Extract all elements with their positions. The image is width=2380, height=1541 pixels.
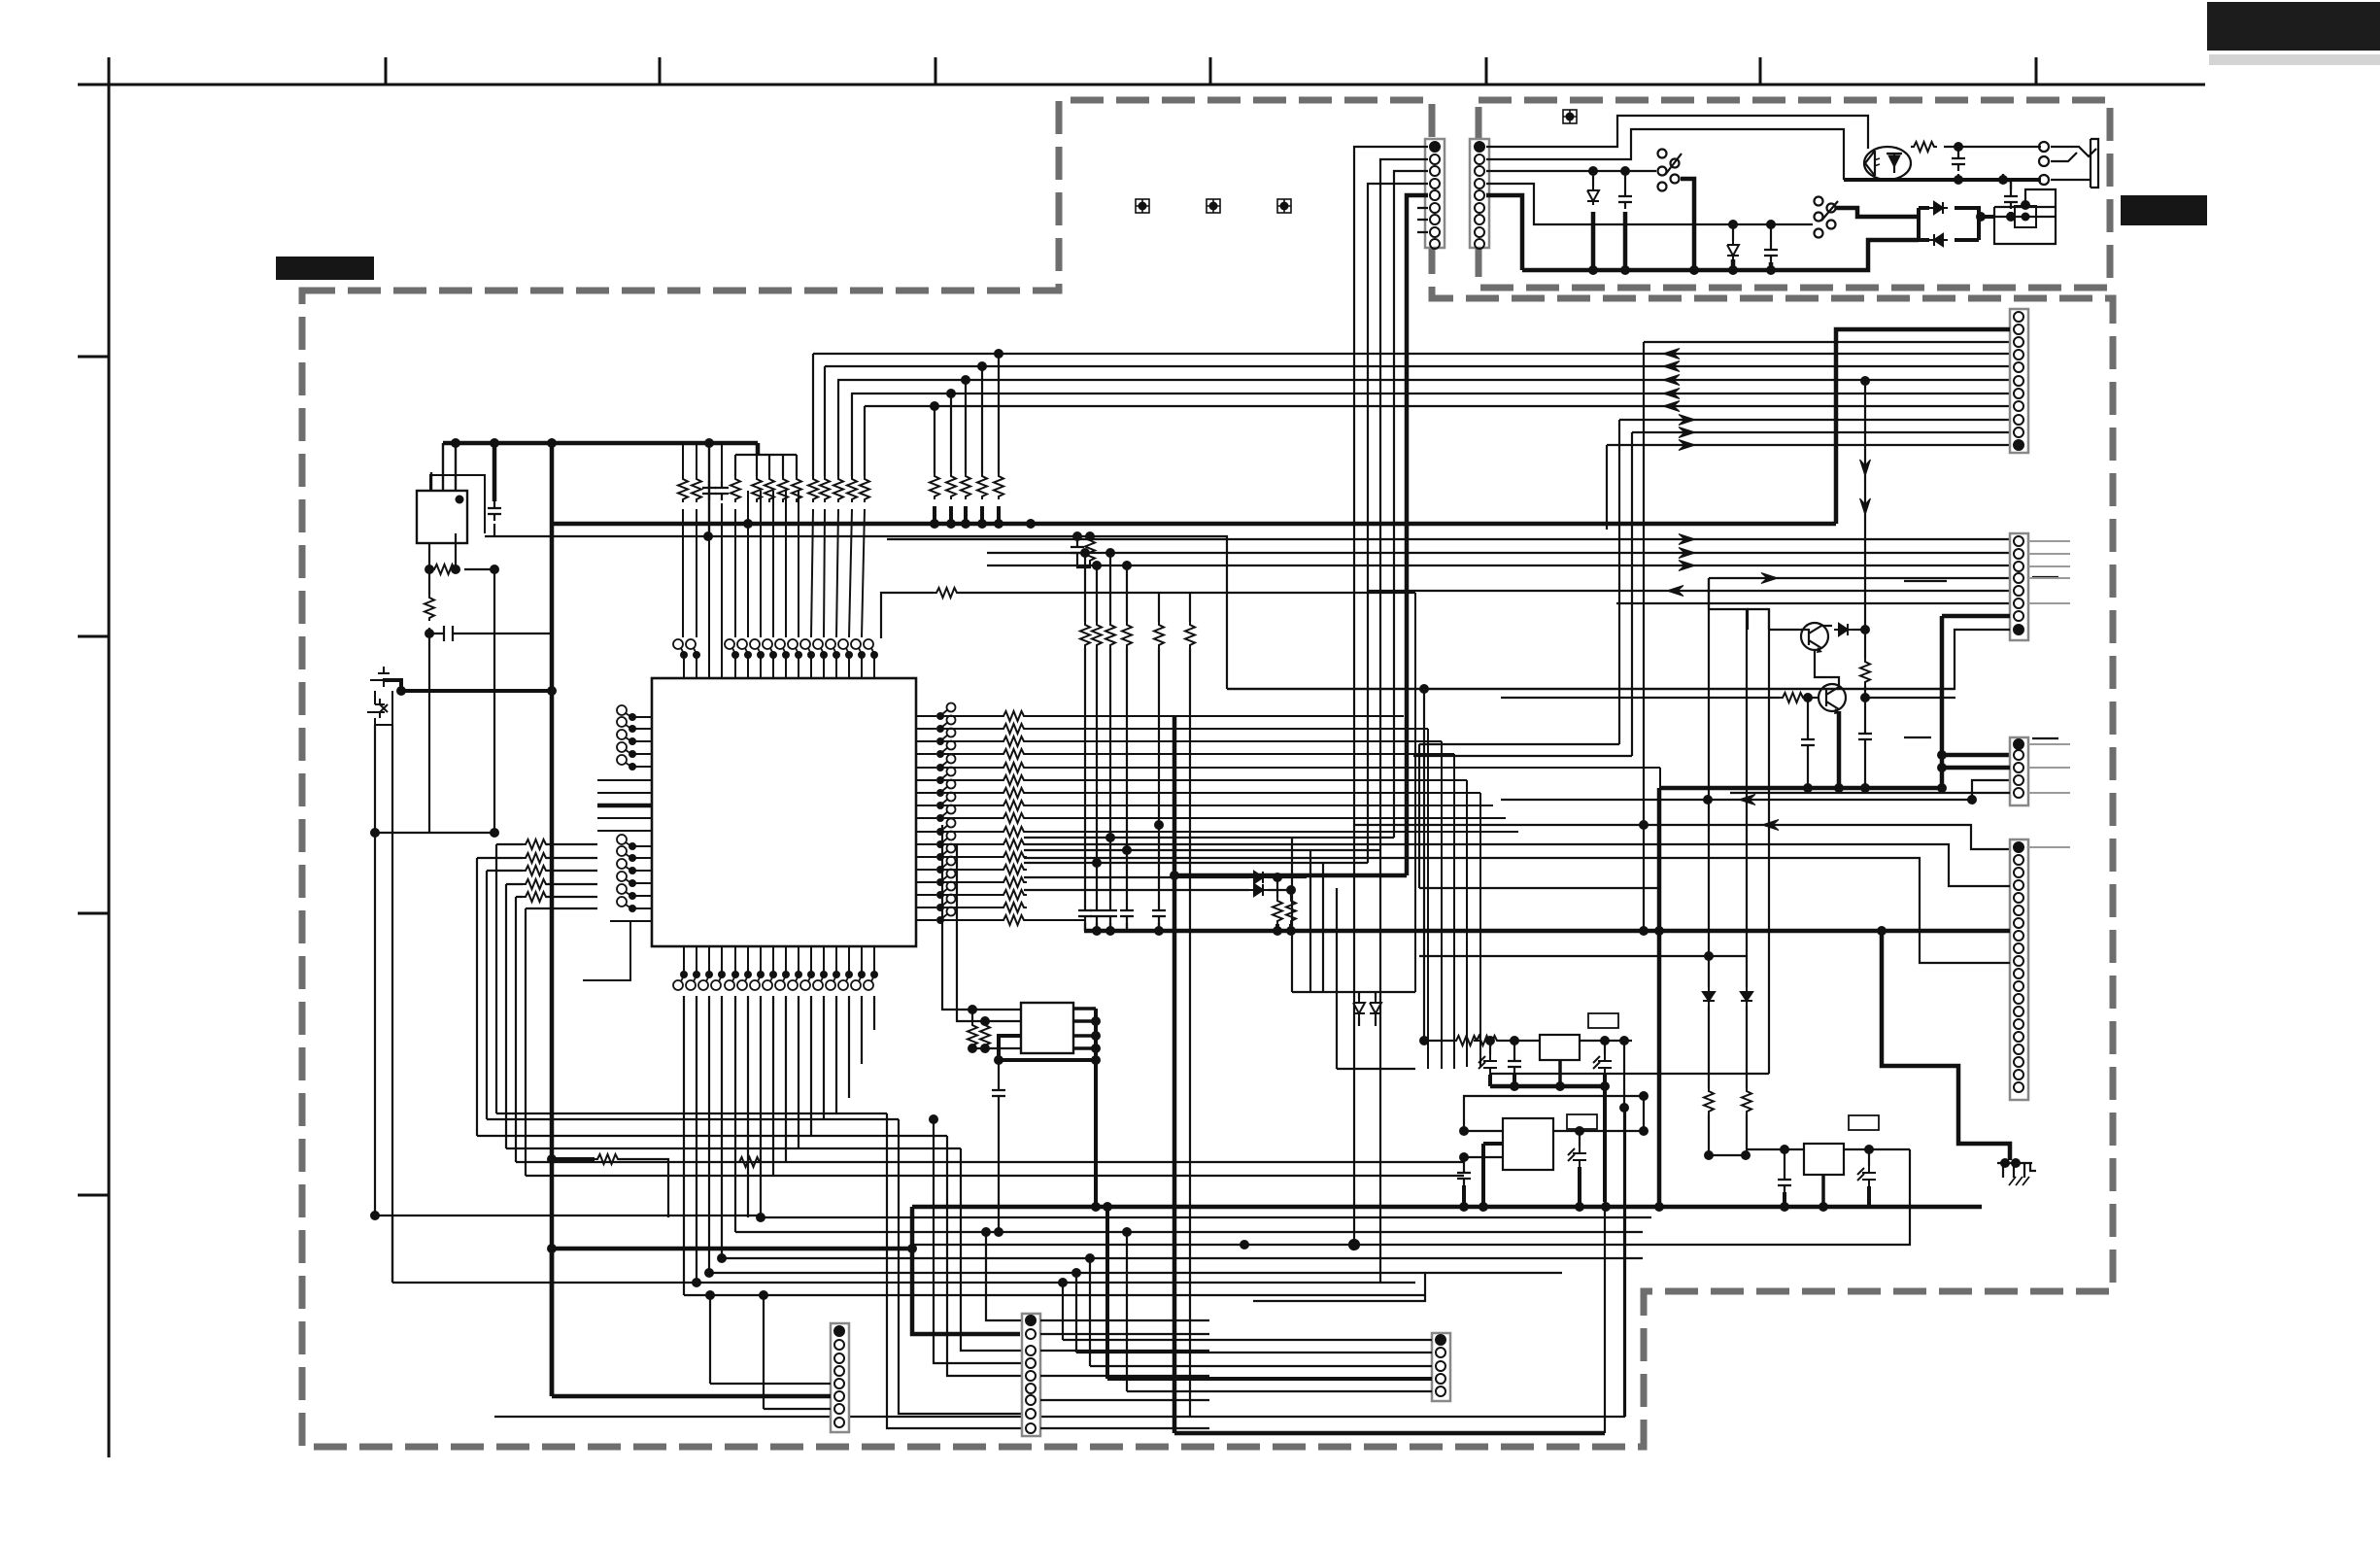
right pin series resistors: [1001, 711, 1027, 925]
connector CN2 (board edge right): [1470, 139, 1489, 249]
connector CN7 (right mid): [2010, 533, 2028, 640]
wire y=857 linking rails: [375, 832, 494, 834]
central lattice rows: [1024, 689, 1955, 1069]
wire row y=718 from left: [1501, 697, 1749, 699]
wire row y=1458: [494, 1416, 1625, 1418]
capacitor C2: [488, 501, 501, 521]
U3 select pin thick: [999, 1036, 1096, 1060]
U4 output row: [1580, 1040, 1632, 1042]
U5 output: [1553, 1130, 1644, 1132]
U5 out cap: [1579, 1131, 1581, 1147]
diode rails down right: [1708, 578, 1710, 987]
capacitor C4: [1624, 171, 1626, 189]
border frame top line: [78, 84, 2205, 86]
resistor R8 on rail x=1920: [1864, 630, 1866, 659]
wire row y=405: [851, 393, 2010, 394]
U1 top pins with jumpers: [684, 656, 874, 678]
switch S1: [1658, 150, 1683, 191]
thick branch row: [552, 1247, 912, 1251]
middle signal rows to CN7: [887, 539, 2010, 630]
wire row y=1253: [761, 1216, 1651, 1218]
crosshair pad 4: [1563, 110, 1577, 123]
connector CN8: [2010, 737, 2028, 805]
wire row y=1152: [487, 1118, 899, 1120]
wire row y=1295: [722, 1257, 1643, 1259]
diode pair loop D3 D4: [1919, 208, 1994, 240]
sub board dashed box B (top right): [1479, 100, 2110, 288]
reset supervisor IC U2: [417, 491, 467, 543]
black label box left: [276, 257, 374, 280]
wire row y=1105: [1489, 1073, 1769, 1075]
top signal bundle rows to connector CN6: [813, 342, 2010, 476]
microcontroller U1 body: [652, 678, 916, 946]
cap C7 across opto output: [1957, 147, 1959, 152]
wire row y=862: [1024, 837, 1394, 839]
U5 label frame: [1567, 1114, 1597, 1129]
crosshair pad 2: [1207, 199, 1220, 213]
crystal X1 block: [383, 680, 401, 691]
crosshair pad 1: [1136, 199, 1149, 213]
U3 pull resistors: [972, 1010, 985, 1022]
CN8 pin5 wire: [1730, 792, 2010, 794]
regulator U6: [1804, 1144, 1844, 1175]
U6 output: [1844, 1148, 1910, 1150]
diodes D6 D7 on rows 903/916: [1246, 877, 1249, 890]
step wire to chassis ground: [1882, 931, 2010, 1160]
vertical rail x=509 down: [493, 569, 495, 833]
thick rail from CN7 area down right: [1940, 616, 1945, 788]
long rail x=1225: [1189, 931, 1191, 1417]
wire row y=582: [987, 565, 2010, 566]
thick stub left: [597, 804, 652, 808]
left rails continuation: [391, 1216, 393, 1283]
thick drop x=780 to resistor tie: [756, 443, 761, 455]
wire row y=610 with resistor: [881, 593, 934, 638]
wire row y=766: [1419, 743, 1619, 745]
transistor Q2: [1819, 684, 1846, 711]
regulator U5: [1503, 1118, 1553, 1170]
CN11 right stubs: [1040, 1320, 1209, 1428]
U5 enable thick: [1483, 1144, 1503, 1207]
U3 cap: [998, 1060, 1000, 1083]
crosshair pad 3: [1277, 199, 1291, 213]
tick marks top: [386, 57, 2036, 85]
thick row 1475: [1174, 1431, 1605, 1436]
U6 gnd pin: [1821, 1175, 1825, 1207]
wire row y=648 into Q area: [1769, 629, 1802, 631]
U5 upper frame wire: [1464, 1096, 1644, 1131]
U1 bottom pin rails: [684, 996, 874, 1295]
zener D2: [1732, 224, 1734, 241]
connector CN9 (long right): [2010, 839, 2028, 1100]
U3 left pin wires: [942, 825, 1021, 1048]
wire row y=823: [1501, 799, 1972, 801]
CN2 pin2 wire: [1486, 129, 1844, 180]
thick rail 1209 routing: [1174, 873, 1407, 878]
tick marks left: [78, 357, 109, 1195]
rail x=1692 from row 352 down: [1643, 342, 1645, 931]
wire row y=569: [987, 552, 2010, 554]
faded strip under top-right label: [2209, 54, 2380, 65]
transistor Q1: [1801, 623, 1828, 650]
zener D1: [1592, 171, 1594, 187]
U2 outer outline: [430, 475, 485, 533]
wire row y=1182: [506, 1147, 961, 1149]
Q1 base feed: [1747, 609, 1769, 1074]
wire row y=709: [1227, 688, 1955, 690]
switch S2: [1815, 197, 1839, 238]
wire row y=418: [865, 405, 2010, 407]
base resistor R9: [1749, 697, 1780, 699]
thick L down from bus left end: [1657, 788, 1662, 1207]
thick wire CN6 pin2 to bus corner: [1836, 329, 2010, 524]
left IC group2 resistors: [523, 839, 549, 849]
rails from CN1 down to lattice: [1354, 335, 1419, 1283]
wire row y=608: [1368, 590, 2010, 592]
junction dots on bundle: [994, 349, 1003, 359]
CN7 pin7 thick link down to CN8: [1942, 753, 2010, 758]
thick wire from X1 to U1: [401, 689, 552, 693]
wire row y=555: [887, 538, 2010, 540]
capacitor C3 horizontal in wire y=652: [429, 626, 552, 641]
row 862 corner down bundle: [1291, 838, 1293, 992]
U1 left pins upper group with jumpers: [597, 717, 652, 831]
long signal wire from U2 right: [485, 536, 1227, 689]
CN7 right gray stubs: [2028, 541, 2070, 603]
capacitor C6 on jack return: [2003, 174, 2011, 189]
wire row y=883 step to CN9: [1024, 858, 2010, 963]
connector CN6 (top right): [2010, 309, 2028, 453]
cap C8: [1807, 698, 1809, 733]
rail x=1920 from row 392 down with arrowheads: [1864, 381, 1866, 630]
wire row y=1251: [375, 1215, 761, 1216]
decoupling rails down to caps: [1085, 553, 1159, 904]
wire row y=1333: [684, 1294, 1425, 1296]
thick supply bus y=539: [552, 522, 1836, 527]
resistor R3 under U2: [429, 533, 456, 569]
thick corner into bus: [912, 1207, 1020, 1334]
wire row y=849 to CN9 pin1: [1354, 825, 2010, 849]
U1 right pins with jumpers and series resistors: [916, 716, 936, 920]
wire row y=595: [1709, 577, 2010, 579]
wire row y=1169: [477, 1135, 947, 1137]
wire row y=869 step to CN9: [1024, 844, 2010, 886]
U3 ground rail: [1094, 1009, 1098, 1207]
rails x=1654,1667,1680 drops: [1607, 420, 1632, 756]
U4 caps: [1489, 1041, 1491, 1054]
CN8 pin3 thick wire left: [1942, 766, 2010, 770]
wire row y=445: [1632, 431, 2010, 433]
connector CN11 (bottom middle): [1022, 1314, 1040, 1436]
junction dots lattice: [1105, 833, 1115, 842]
leads from array bottom down to U1 top jumpers: [683, 491, 865, 656]
wires above U2 to Vcc bus: [431, 443, 456, 491]
U1 left lower-corner routed pin: [583, 921, 630, 980]
wire row y=1268: [735, 1231, 1643, 1233]
wire row y=1210: [526, 1175, 1464, 1177]
lower arrow rows: [1354, 800, 2010, 849]
wire row y=1320: [392, 1282, 1415, 1284]
corner drops on left of bundle: [813, 354, 865, 476]
opto bottom thick wire to jack: [1844, 178, 2041, 182]
row 903/916 left stubs from resistor row: [1024, 877, 1246, 890]
rails below U4: [1603, 1086, 1607, 1202]
wire row y=888: [1024, 862, 1368, 864]
wire row y=458: [1607, 444, 2010, 446]
vertical rail x=730 from bus down: [708, 443, 710, 536]
wire row y=432: [1619, 419, 2010, 421]
pull-down resistors from bundle to thick bus: [935, 354, 999, 473]
vcc drop to cap C2: [493, 443, 497, 501]
wire row y=391: [837, 379, 2010, 381]
capacitor C5: [1770, 224, 1772, 243]
headphone jack J1: [2039, 139, 2098, 188]
vertical rail x=442 down: [428, 634, 430, 833]
net label dash marks: [1904, 577, 2058, 738]
CN2 pin3 wire to switch S1: [1486, 170, 1656, 172]
risers to rows from left rails: [1605, 1086, 1625, 1433]
opto coupler PC1: [1864, 147, 1911, 180]
U4 ground bar: [1490, 1084, 1605, 1089]
CN7 pin8 wire down-left: [1227, 630, 2010, 689]
wire row y=875: [1024, 849, 1380, 851]
diode D5 at Q1 collector: [1821, 625, 1832, 627]
rails x=386,404 down from crystal: [375, 725, 392, 1283]
rows to CN9 with steps: [1024, 844, 2010, 1074]
leads from array top up to vcc bus: [683, 443, 722, 481]
thick ground bus y=811: [1659, 786, 1942, 791]
pull resistor array above U1 (row y~497): [678, 476, 869, 502]
power relay box: [1994, 189, 2056, 244]
thick return bus in box B: [1522, 240, 1919, 270]
U6 output frame: [1244, 1149, 1910, 1245]
thick Vcc bus top-left: [443, 441, 758, 446]
Q2 emitter thick to bus: [1837, 711, 1842, 788]
regulator U4: [1540, 1035, 1580, 1060]
arrows on bundle rows: [1663, 349, 1680, 360]
wire row y=1196: [516, 1161, 1464, 1163]
wire row y=377: [825, 365, 2010, 367]
U4 input row: [1424, 1040, 1453, 1042]
thick rail x=568 down from vcc bus: [550, 443, 555, 1396]
U1 left pins lower group with jumpers: [610, 846, 652, 921]
main board dashed boundary: [302, 100, 2113, 1447]
U5 input cap: [1463, 1157, 1465, 1166]
Q1 emitter to Q2 collector: [1815, 650, 1839, 685]
chassis ground G1: [2000, 1158, 2010, 1168]
CN2 pin1 wire up-right: [1486, 116, 1868, 149]
border frame left line: [108, 57, 111, 1457]
CN12 left wires: [1063, 1340, 1432, 1391]
wire row y=1281: [912, 1244, 1244, 1246]
U6 input: [1746, 1148, 1804, 1150]
opto top resistor R5: [1911, 146, 1913, 148]
wire row y=364: [813, 353, 2010, 355]
resistor R4 vertical: [428, 569, 430, 595]
CN2 pin5 thick wire: [1486, 195, 1522, 270]
U6 label frame: [1849, 1115, 1879, 1130]
corner drops for rows: [1709, 578, 1769, 630]
black label box top-right corner: [2207, 2, 2380, 51]
connector CN1 (board edge left): [1425, 139, 1445, 249]
wire row y=1310: [709, 1272, 1562, 1274]
CN10 wires: [710, 1295, 831, 1384]
wire row y=352: [1644, 341, 2010, 343]
bundle rail corners east: [1292, 992, 1415, 1069]
U5 input rows: [1464, 1131, 1503, 1157]
thick ground bus bottom: [912, 1205, 1982, 1210]
resistor on thick row: [547, 1154, 557, 1164]
connector CN10 (bottom left): [831, 1323, 849, 1432]
wire row y=621: [1616, 602, 2010, 604]
U4 gnd pin: [1558, 1060, 1562, 1086]
cap C9: [1864, 698, 1866, 727]
wire row y=914: [1419, 887, 1659, 889]
resistor on wire 1196: [736, 1157, 763, 1167]
eeprom U3: [1021, 1003, 1073, 1053]
connector CN12: [1432, 1333, 1450, 1401]
zener pair below row 1021: [1353, 999, 1365, 1017]
U3 right pins thick: [1073, 1009, 1096, 1048]
cap/res pair on reset row: [1076, 536, 1078, 540]
rail to regulator input: [1423, 689, 1425, 1041]
bottom wire rows: [375, 1113, 1651, 1417]
wire row y=984: [1419, 955, 1746, 957]
arrows on middle rows: [1679, 534, 1695, 545]
capacitors in array above U1: [702, 481, 716, 500]
thick ground bus y=958: [1084, 929, 2010, 934]
CN2 pin4 wire: [1486, 184, 1813, 224]
CN1 wires left then down rails: [1354, 147, 1428, 335]
U1 bottom pins with jumpers: [684, 946, 874, 975]
wire row y=1146: [496, 1113, 887, 1114]
U4 label frame: [1588, 1013, 1618, 1028]
pulldown resistors to bus: [1277, 877, 1291, 898]
black label box right side: [2121, 195, 2207, 225]
rails to CN11: [887, 1113, 1022, 1428]
wire row y=778: [1413, 755, 1632, 757]
